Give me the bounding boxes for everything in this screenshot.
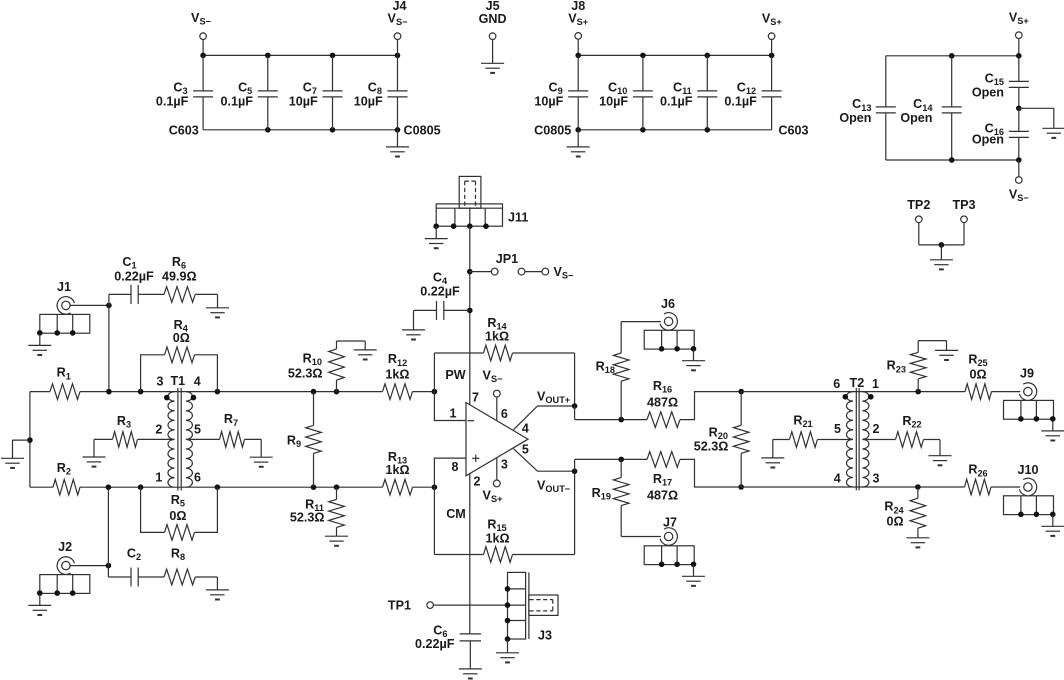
svg-text:1: 1 [450,407,457,421]
svg-text:5: 5 [834,422,841,436]
svg-text:T2: T2 [850,376,865,390]
ground (TP2/TP3) [940,245,942,260]
node J4 VS- terminal [397,40,399,56]
resistor R18 [620,322,622,353]
resistor R9 [313,392,315,426]
resistor R11 52.3ohm [336,487,338,499]
node R18 tap [618,417,624,423]
wire J1 node down to R1 line [108,305,110,391]
svg-text:0.1µF: 0.1µF [221,94,254,108]
ground (J5) [492,40,494,64]
svg-text:2: 2 [155,423,162,437]
resistor R15 1kohm feedback [434,554,483,556]
svg-text:4: 4 [522,422,529,436]
svg-text:10µF: 10µF [534,94,563,108]
op-amp pin 6 VS- supply [496,397,498,420]
node VOUT+ [572,403,578,409]
resistor R8 [164,569,195,585]
capacitor C13 Open [885,56,887,107]
wire VOUT- from pin 5 [514,449,575,472]
T1 polarity dot secondary [191,395,197,401]
svg-text:TP2: TP2 [907,198,930,212]
svg-text:0Ω: 0Ω [173,331,190,345]
node R20 bottom [738,484,744,490]
svg-text:GND: GND [479,12,507,26]
node R23 tap [915,389,921,395]
node C15/C16 midpoint [1016,106,1022,112]
wire node up to C1 branch [108,294,110,305]
wire J2 to node [70,565,108,567]
svg-text:49.9Ω: 49.9Ω [162,270,197,284]
node J8 VS+ terminal [577,39,579,55]
svg-text:JP1: JP1 [496,252,518,266]
resistor R21 (T2 primary center tap) [817,439,853,441]
wire CM net op-amp pin 2 down [469,473,471,634]
wire left input rail [29,392,31,488]
test point TP3 [961,216,968,223]
capacitor C9 [577,55,579,91]
svg-text:1kΩ: 1kΩ [485,329,509,343]
wire R18 to J6 [621,321,664,323]
svg-text:Open: Open [839,111,871,125]
ground (R11) [336,527,338,536]
node J2 junction [106,563,112,569]
jumper JP1 [470,271,492,273]
wire top input line (R1 to R12) [80,391,383,393]
svg-text:2: 2 [873,422,880,436]
capacitor C12 [771,55,773,91]
resistor R5 0ohm [141,487,165,532]
connector J7 [644,546,694,565]
capacitor C16 Open [1018,108,1020,131]
svg-text:J7: J7 [663,515,677,529]
svg-text:J11: J11 [508,211,528,225]
node VS- terminal (bottom right of C16) [1018,160,1020,177]
wire top rail of VS+ cap bank [578,54,771,56]
ground (R7) [260,439,262,457]
ground (J9) [1052,419,1054,431]
wire midpoint to ground [1019,107,1054,109]
svg-text:C0805: C0805 [534,124,571,138]
capacitor C1 0.22uF [130,285,132,304]
svg-text:0.22µF: 0.22µF [415,637,455,651]
svg-text:7: 7 [472,391,479,405]
svg-text:1: 1 [872,377,879,391]
ground (J1) [39,333,41,345]
svg-text:52.3Ω: 52.3Ω [288,367,323,381]
node VOUT- [572,468,578,474]
wire node B to pin 8 [434,458,466,487]
ground (J2) [39,593,41,605]
svg-text:CM: CM [446,507,466,521]
wire bottom input line (R2 to R13) [80,486,383,488]
ground (C4) [413,310,415,330]
node R4 left [138,389,144,395]
svg-text:J1: J1 [57,280,71,294]
svg-text:10µF: 10µF [289,94,318,108]
wire bottom rail of VS+ cap bank [578,129,771,131]
resistor R20 52.3ohm [740,392,742,426]
svg-text:C603: C603 [778,124,808,138]
svg-text:Open: Open [972,133,1004,147]
wire R17 to R20 bottom [680,459,741,487]
ground (C15/C16 midpoint) [1042,127,1064,129]
svg-text:52.3Ω: 52.3Ω [694,439,729,453]
wire bottom rail (C13-C16) [886,159,1019,161]
capacitor C5 [267,55,269,91]
ground (R21) [772,440,774,458]
node A (inverting input junction) [432,389,438,395]
ground (R6) [217,294,219,307]
svg-text:0.1µF: 0.1µF [156,94,189,108]
svg-text:5: 5 [194,423,201,437]
svg-text:0.1µF: 0.1µF [724,94,757,108]
capacitor C4 0.22uF [444,309,470,311]
connector J5 GND terminal [489,33,496,40]
capacitor C3 [202,55,204,91]
svg-text:5: 5 [522,442,529,456]
node J1 junction [106,303,112,309]
node R20 top [738,389,744,395]
capacitor C6 0.22uF [460,633,481,635]
node JP1 tap [467,269,473,275]
connector J1 [40,314,90,333]
T2 polarity dot primary [843,394,849,400]
svg-text:J2: J2 [58,540,72,554]
wire T2 primary top [741,391,965,393]
svg-text:10µF: 10µF [354,94,383,108]
node R5 right [215,484,221,490]
resistor R2 [30,486,53,488]
svg-text:1: 1 [155,470,162,484]
wire J1 to node [70,304,109,306]
node rail ground tap [27,437,33,443]
ground (VS+ cap bank) [577,130,579,147]
svg-text:J9: J9 [1020,367,1034,381]
ground (J7) [693,565,695,577]
wire VOUT- line to R17 [575,458,647,460]
wire R19 to J7 [621,536,664,538]
svg-text:J3: J3 [538,629,552,643]
node C4 tap [467,308,473,314]
wire node A up to R14 [433,353,435,392]
resistor R16 487ohm [647,412,680,428]
svg-text:Open: Open [900,111,932,125]
node VS+ terminal (top right) [1016,32,1023,39]
wire VOUT+ from pin 4 [514,406,575,430]
resistor R14 1kohm feedback [434,352,483,354]
svg-text:10µF: 10µF [599,94,628,108]
resistor R3 (T1 primary center tap) [94,438,113,440]
svg-text:0.1µF: 0.1µF [660,94,693,108]
wire R16 to R20 top [680,392,741,420]
svg-text:3: 3 [501,458,508,472]
ground (VS- cap bank) [397,130,399,147]
ground (J10) [1052,515,1054,527]
svg-text:4: 4 [834,471,841,485]
ground (R8) [216,577,218,590]
capacitor C11 [706,55,708,91]
svg-text:8: 8 [452,460,459,474]
svg-text:0Ω: 0Ω [169,509,186,523]
ground (J6) [693,349,695,361]
node R5 left [138,484,144,490]
node R9/R11 bottom [311,484,317,490]
resistor R25 0ohm [965,384,992,400]
op-amp U1 triangle [466,403,528,476]
connector J11 [459,176,481,208]
svg-text:6: 6 [833,377,840,391]
node R24 tap [915,484,921,490]
transformer T2 [847,392,854,487]
resistor R12 1kohm [383,384,413,400]
wire TP2-TP3 join [919,244,964,246]
svg-text:1kΩ: 1kΩ [485,532,509,546]
resistor R19 [620,459,622,477]
wire J2 node up to R2 line [107,487,109,565]
node R9/R10 top [311,389,317,395]
op-amp pin 3 VS+ supply [496,458,498,480]
svg-text:T1: T1 [170,374,185,388]
test point TP1 [427,602,434,609]
resistor R7 (T1 secondary center tap) [186,438,220,440]
ground (R22) [939,440,941,456]
svg-text:Open: Open [972,85,1004,99]
wire TP1 to J3 [433,604,507,606]
svg-text:TP3: TP3 [952,198,975,212]
node R19 tap [618,457,624,463]
svg-text:2: 2 [474,475,481,489]
svg-text:52.3Ω: 52.3Ω [290,510,325,524]
op-amp minus input symbol [468,420,475,422]
ground (C6) [459,668,482,670]
wire top rail of VS- cap bank [203,54,397,56]
svg-text:6: 6 [194,470,201,484]
ground (R23) [918,340,946,342]
resistor R10 52.3ohm [336,341,338,349]
node VS+ terminal (right of bank) [771,40,773,56]
resistor R26 [965,479,992,495]
node R4 right / T1 pin 4 line [215,389,221,395]
connector J10 [1004,496,1054,515]
wire VOUT+ line to R16 [575,419,647,421]
capacitor C8 [397,55,399,91]
svg-text:3: 3 [157,374,164,388]
op-amp plus input symbol [472,457,479,459]
ground (R24) [917,528,919,538]
node B (non-inverting input junction) [432,484,438,490]
resistor R1 [30,391,50,393]
node TP junction [939,242,945,248]
resistor R23 [917,341,919,353]
resistor R4 0ohm [141,355,165,392]
resistor R6 49.9ohm [164,287,195,303]
wire node A to pin 1 [434,392,466,421]
T2 polarity dot secondary [868,394,874,400]
svg-text:487Ω: 487Ω [647,489,678,503]
wire top rail (C13-C16) [886,55,1019,57]
resistor R13 1kohm [383,479,413,495]
svg-text:0.22µF: 0.22µF [114,270,154,284]
connector J9 [1004,400,1054,419]
capacitor C10 [642,55,644,91]
wire node down to C2 branch [107,566,109,577]
connector J6 [644,330,694,349]
wire node B down to R15 [433,487,435,554]
wire PD net J11 to op-amp pin 7 [469,226,471,405]
svg-text:1kΩ: 1kΩ [385,367,409,381]
capacitor C7 [332,55,334,91]
capacitor C14 Open [951,56,953,107]
ground (R3) [93,439,95,457]
svg-text:PW: PW [445,368,465,382]
test point TP2 [916,216,923,223]
svg-text:0.22µF: 0.22µF [420,285,460,299]
svg-text:6: 6 [501,407,508,421]
capacitor C15 Open [1018,56,1020,82]
wire T2 primary bottom [741,486,964,488]
ground (R10) [337,340,366,342]
resistor R17 487ohm [647,452,680,468]
svg-text:0Ω: 0Ω [969,368,986,382]
ground (input rail) [13,439,30,441]
svg-text:487Ω: 487Ω [647,395,678,409]
resistor R24 0ohm [917,487,919,498]
svg-text:C603: C603 [169,124,199,138]
svg-text:C0805: C0805 [404,124,441,138]
T1 polarity dot primary [164,395,170,401]
capacitor C2 [130,568,132,587]
connector J2 [40,575,90,594]
svg-text:0Ω: 0Ω [886,515,903,529]
transformer T1 [168,392,174,488]
node VS- terminal (top-left bank) [202,40,204,56]
svg-text:3: 3 [873,471,880,485]
ground (J3) [507,639,509,653]
svg-text:J6: J6 [661,297,675,311]
resistor R22 (T2 secondary center tap) [862,439,895,441]
connector J3 [508,572,526,639]
ground (J11) [435,226,437,238]
svg-text:1kΩ: 1kΩ [385,463,409,477]
svg-text:J10: J10 [1017,463,1038,477]
svg-text:4: 4 [194,374,201,388]
wire bottom rail of VS- cap bank [203,129,397,131]
svg-text:TP1: TP1 [388,599,411,613]
